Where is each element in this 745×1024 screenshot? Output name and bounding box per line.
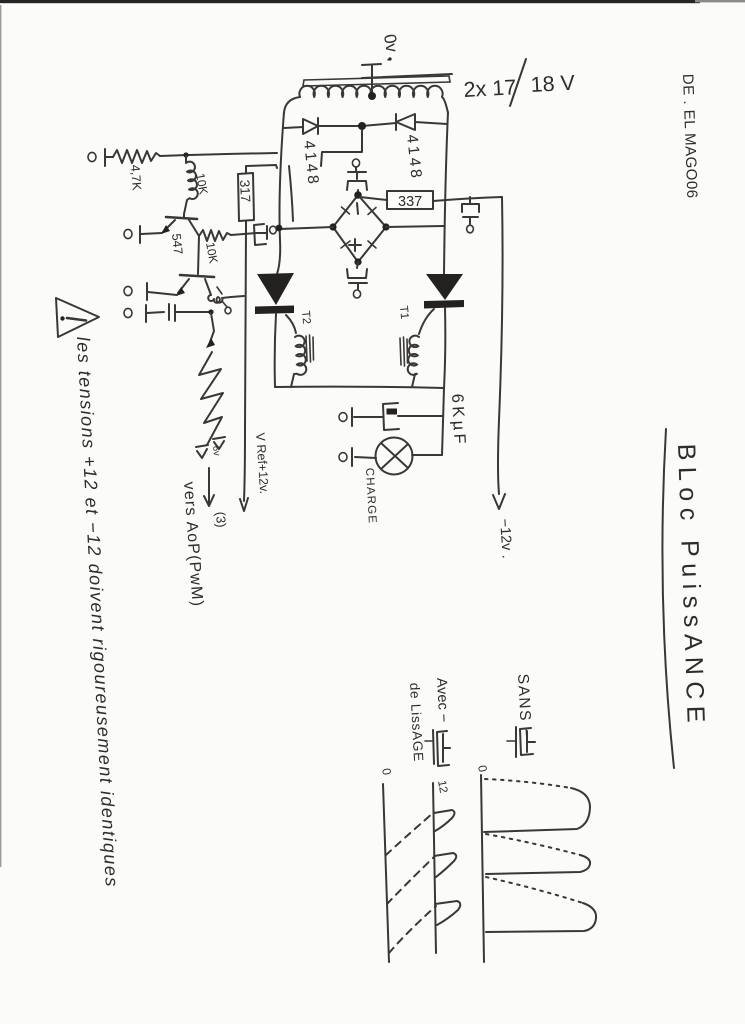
svg-text:12: 12 xyxy=(435,779,449,794)
resistor R3 10K horizontal xyxy=(199,230,231,241)
capacitor C5 above bridge with terminal xyxy=(347,159,367,194)
capacitor glyph sans xyxy=(507,727,535,757)
wire -12V run xyxy=(498,197,503,494)
capacitor C1 xyxy=(169,304,211,321)
svg-text:2x 17: 2x 17 xyxy=(463,75,517,102)
wire bridge left to box edge xyxy=(280,227,333,229)
wire T1 cathode down xyxy=(444,308,445,388)
scan border left xyxy=(0,5,1,867)
terminal J2 xyxy=(124,226,162,243)
svg-text:−12v .: −12v . xyxy=(496,518,515,559)
svg-text:CHARGE: CHARGE xyxy=(363,468,378,525)
squiggle link Q2 to V-Ref rail xyxy=(208,287,244,303)
terminal J4 xyxy=(124,305,164,322)
resistor R1 4,7K xyxy=(113,150,160,163)
wire top rail left xyxy=(160,153,277,156)
ripple fin 1 xyxy=(434,810,455,831)
thyristor T2 device xyxy=(255,273,294,314)
capacitor C8 6KuF xyxy=(339,403,442,430)
wire bridge right to box edge xyxy=(386,226,444,227)
svg-text:547: 547 xyxy=(169,233,185,255)
node Q2 collector junction xyxy=(208,309,213,314)
transistor Q1 547 xyxy=(161,214,199,236)
svg-text:0: 0 xyxy=(475,764,490,773)
wire right box edge xyxy=(444,112,448,274)
svg-text:10K: 10K xyxy=(203,241,220,264)
raw hump 1 dotted edge xyxy=(485,779,571,788)
svg-text:10K: 10K xyxy=(193,172,210,195)
thyristor T1 device xyxy=(424,274,464,309)
transformer TR1 0V terminal xyxy=(362,57,392,95)
svg-text:6v: 6v xyxy=(210,445,222,456)
svg-text:317: 317 xyxy=(237,179,253,202)
resistor R2 10K vertical xyxy=(184,156,198,214)
svg-text:6KµF: 6KµF xyxy=(448,393,469,447)
capacitor C7 at 337 output with terminal xyxy=(462,197,479,233)
svg-text:DE . EL MAGO06: DE . EL MAGO06 xyxy=(679,74,700,199)
raw hump 2 solid xyxy=(486,855,590,874)
svg-text:BLoc PuissANCE: BLoc PuissANCE xyxy=(672,443,710,729)
title underline xyxy=(662,429,674,768)
svg-text:0: 0 xyxy=(379,767,394,776)
scan border top xyxy=(0,0,700,3)
svg-text:vers AoP(PwM): vers AoP(PwM) xyxy=(180,481,206,608)
warning triangle xyxy=(56,298,99,337)
wire stub right of 317 xyxy=(289,166,293,221)
terminal J1 xyxy=(88,149,113,166)
svg-text:4148: 4148 xyxy=(403,134,425,182)
transformer TR1 secondary winding xyxy=(284,86,448,113)
raw hump 1 solid xyxy=(484,788,590,832)
dashed sine segment 3 xyxy=(389,906,436,953)
dashed sine segment 2 xyxy=(387,857,434,904)
svg-text:4,7K: 4,7K xyxy=(128,164,144,191)
dashed sine segment 1 xyxy=(386,813,433,855)
svg-text:V Ref+12v.: V Ref+12v. xyxy=(253,432,271,494)
wire T2 cathode down xyxy=(275,314,276,387)
raw hump 3 solid xyxy=(486,903,596,932)
svg-text:les tensions +12 et −12 doiven: les tensions +12 et −12 doivent rigoureu… xyxy=(73,336,122,888)
svg-text:337: 337 xyxy=(398,194,422,210)
zener Z2 xyxy=(196,445,208,458)
lamp CHARGE xyxy=(339,438,442,475)
wire rectifier rail xyxy=(284,122,447,128)
axis smoothed zero line xyxy=(383,784,389,962)
svg-text:18 V: 18 V xyxy=(530,71,576,97)
capacitor C6 below bridge with terminal xyxy=(347,262,367,298)
arrow to pin3 xyxy=(204,468,214,506)
label 2x 17/18V xyxy=(463,59,576,106)
ripple fin 2 xyxy=(434,853,456,877)
diode D1 4148 xyxy=(303,118,318,134)
capacitor glyph avec xyxy=(425,730,450,766)
zener Z1 6v xyxy=(213,437,225,449)
wire Q1 to Q2 xyxy=(198,236,199,274)
svg-text:0v .: 0v . xyxy=(380,33,403,63)
svg-text:T1: T1 xyxy=(397,305,410,319)
regulator U3 337 xyxy=(360,191,502,209)
resistor divider zigzag xyxy=(199,352,223,445)
wire from rectifier node down-left xyxy=(321,130,362,166)
diode D2 4148 xyxy=(396,114,415,130)
transformer TR1 core xyxy=(303,74,452,86)
svg-text:(3): (3) xyxy=(213,511,229,528)
terminal J3 xyxy=(124,283,177,300)
arrowhead V-Ref xyxy=(240,498,248,511)
wire with arrow to divider xyxy=(206,313,215,348)
svg-text:de LissAGE: de LissAGE xyxy=(407,682,426,762)
transformer TR1 center tap junction xyxy=(368,92,376,100)
wire box bottom rail xyxy=(275,387,444,388)
node R1/R2 xyxy=(183,152,188,157)
node center-tap rectifier junction xyxy=(358,122,366,130)
wire R3 to regulator output xyxy=(231,233,257,235)
svg-text:Avec −: Avec − xyxy=(433,677,451,722)
bridge rectifier BR1 xyxy=(329,191,389,265)
raw hump 3 dotted edge xyxy=(486,877,583,903)
svg-text:T2: T2 xyxy=(299,310,312,324)
wire bottom rail to lamp branch xyxy=(442,388,444,455)
capacitor C2 at 317 adj with terminal xyxy=(254,224,276,245)
pulse transformer T1 winding xyxy=(400,309,434,387)
axis raw line xyxy=(481,775,484,962)
wire left box edge xyxy=(277,112,284,274)
pulse transformer T2 winding xyxy=(286,315,314,387)
transistor Q2 xyxy=(176,275,214,296)
ripple fin 3 xyxy=(435,901,460,925)
regulator U2 317 xyxy=(238,165,277,228)
wire V-Ref vertical run xyxy=(244,228,246,501)
node bridge-left on box edge xyxy=(276,225,283,232)
pendant circle at squiggle xyxy=(222,301,231,314)
raw hump 2 dotted edge xyxy=(486,834,580,855)
svg-text:4148: 4148 xyxy=(300,140,322,188)
arrowhead -12V xyxy=(493,494,505,509)
axis ripple line xyxy=(433,783,436,953)
